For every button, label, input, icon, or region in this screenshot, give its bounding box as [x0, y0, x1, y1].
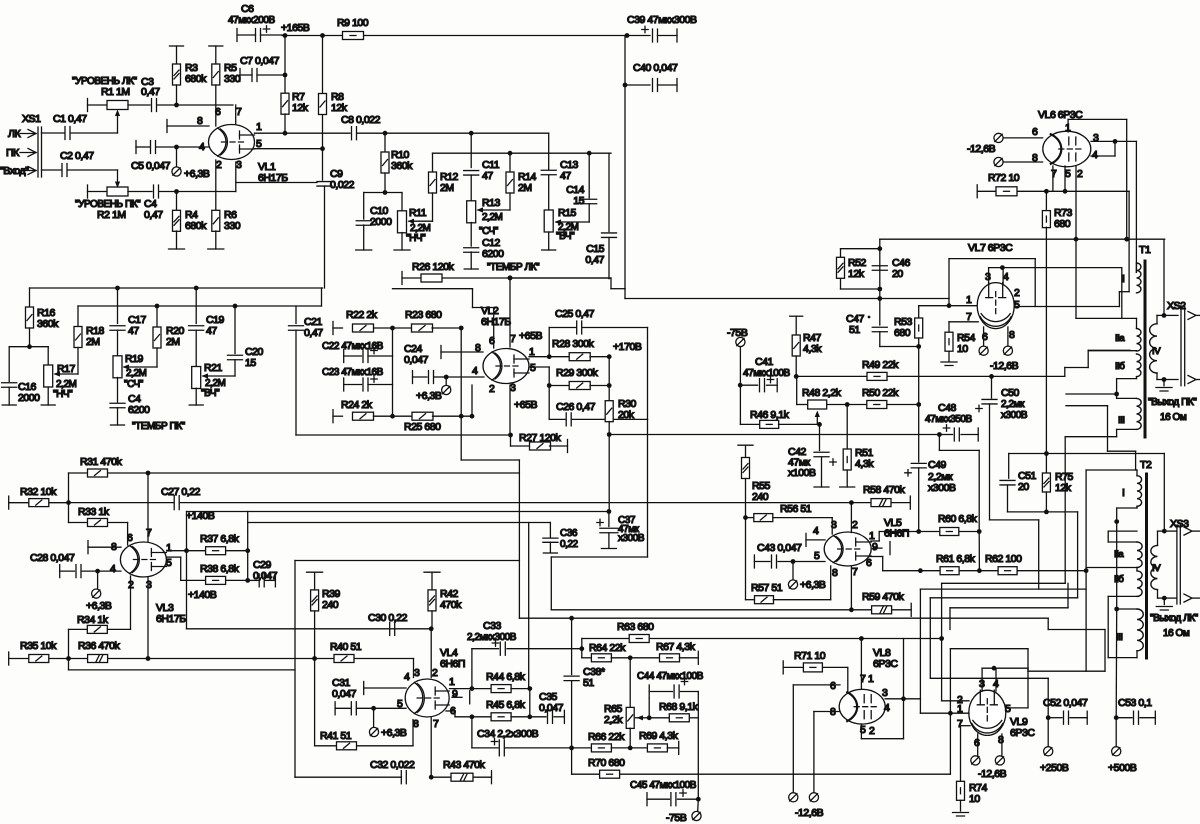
tube VL9 6Р3С [969, 690, 1006, 735]
resistor R22 [332, 322, 334, 335]
svg-text:C48: C48 [938, 402, 957, 414]
svg-text:-75В: -75В [666, 812, 687, 824]
terminal -75В top [736, 337, 745, 346]
svg-text:XS2: XS2 [1167, 300, 1186, 312]
capacitor C17 [117, 288, 119, 324]
capacitor C34 [471, 717, 473, 748]
wire T2 IIa top [1108, 530, 1137, 532]
capacitor C4a [110, 403, 125, 408]
svg-text:R13: R13 [482, 197, 501, 209]
resistor R40 [315, 658, 334, 660]
svg-text:IIб: IIб [1114, 574, 1124, 585]
wire R30 col to C37 [608, 435, 610, 512]
svg-text:-75В: -75В [727, 327, 748, 339]
node R52 bottom [877, 287, 882, 292]
svg-text:6: 6 [215, 106, 221, 118]
capacitor C15 [608, 153, 610, 231]
svg-text:2,2М: 2,2М [126, 368, 147, 379]
node C14 [587, 151, 592, 156]
wire VL4 pin6 [446, 710, 455, 712]
svg-text:4: 4 [1092, 149, 1098, 161]
svg-text:5: 5 [1005, 703, 1011, 715]
capacitor C41 [740, 384, 757, 386]
svg-text:IIа: IIа [1114, 549, 1124, 560]
capacitor C20 [234, 306, 236, 354]
svg-text:4: 4 [472, 365, 478, 377]
svg-text:2: 2 [869, 725, 875, 737]
wire VL2 pin2 [470, 414, 475, 419]
wire pin3 to C9 row [235, 162, 237, 192]
svg-text:7: 7 [146, 527, 152, 539]
wire VL1 pin1 row [255, 132, 351, 134]
svg-text:4: 4 [1003, 271, 1009, 283]
capacitor C44 [648, 685, 650, 698]
wire R60R61 col [978, 532, 980, 571]
capacitor C30 [390, 622, 395, 635]
wire VL8 pin8 [814, 711, 840, 713]
terminal +500В [1115, 718, 1117, 747]
wire IIab junction [1088, 350, 1136, 352]
tube VL2 6Н17Б [483, 349, 529, 384]
svg-text:+65В: +65В [514, 399, 537, 411]
node C41 left [738, 383, 743, 388]
resistor R43 [431, 776, 451, 778]
resistor R35 [8, 652, 10, 665]
ground XS2 [1163, 380, 1165, 386]
svg-text:C41: C41 [755, 356, 774, 368]
wire VL4 pin2 col [430, 629, 432, 678]
resistor R56 [746, 517, 754, 519]
svg-text:"ТЕМБР ЛК": "ТЕМБР ЛК" [487, 262, 540, 273]
wire T2 III bottom [1136, 651, 1138, 658]
svg-text:ЛК: ЛК [8, 128, 21, 140]
wire +140V col [186, 512, 188, 551]
svg-text:+250В: +250В [1040, 762, 1069, 774]
node C50 top [989, 374, 994, 379]
wire R70 to box [949, 713, 951, 774]
node bus298 [877, 296, 882, 301]
node R52 top [877, 246, 882, 251]
resistor R41 [315, 745, 337, 747]
terminal -75В bottom [697, 799, 700, 811]
svg-text:XS1: XS1 [22, 113, 41, 125]
capacitor C27 [174, 496, 179, 510]
resistor R73 [1045, 191, 1047, 211]
node R44 right [527, 686, 532, 691]
resistor R63 [629, 635, 649, 643]
node R60 right [977, 529, 982, 534]
node R75 top [1044, 451, 1049, 456]
svg-text:4: 4 [404, 671, 410, 683]
bus y522 [248, 522, 551, 524]
svg-text:ПК: ПК [6, 147, 20, 159]
svg-text:T2: T2 [1140, 459, 1152, 471]
svg-text:16 Ом: 16 Ом [1163, 628, 1190, 639]
capacitor C40 [624, 36, 626, 86]
node R59 left [849, 607, 854, 612]
node C32 R43 [429, 775, 434, 780]
heater +6,3В VL2 [445, 377, 447, 386]
capacitor C8 [352, 127, 357, 140]
wire C14 to R15 wiper [556, 221, 589, 223]
svg-text:C52 0,047: C52 0,047 [1043, 697, 1088, 709]
capacitor C2 [42, 169, 62, 171]
wire R72 east col [1128, 191, 1130, 291]
svg-text:R31 470k: R31 470k [80, 456, 123, 468]
svg-text:C26 0,47: C26 0,47 [556, 401, 596, 413]
wire C53 col [1115, 609, 1118, 718]
wire pin3 to T1 I [1135, 141, 1137, 272]
svg-text:"НЧ": "НЧ" [53, 389, 73, 400]
VL9 box [949, 649, 951, 714]
node R47 bottom [794, 374, 799, 379]
wire VL7 pin7 [949, 321, 978, 323]
tube VL8 6Р3С [839, 689, 885, 724]
wire R26 east [510, 277, 611, 279]
wire C38 col [571, 618, 573, 674]
wire R33 to pin6 [127, 523, 129, 546]
node R25 right [459, 414, 464, 419]
svg-text:R25 680: R25 680 [404, 421, 441, 433]
svg-text:2,2мкх300В: 2,2мкх300В [467, 632, 517, 643]
wire VL5 pin4 bar [805, 533, 807, 546]
svg-text:R43 470k: R43 470k [443, 759, 486, 771]
node rail R7 [283, 33, 288, 38]
svg-text:R11: R11 [409, 207, 427, 219]
wire R52C46 col [879, 239, 881, 325]
resistor R53 [918, 306, 920, 318]
svg-text:3: 3 [831, 519, 837, 531]
svg-text:I: I [1122, 273, 1124, 285]
heater VL9 [977, 734, 979, 756]
capacitor C53 [1114, 715, 1119, 720]
capacitor C6 [236, 29, 238, 42]
wire VL4 pin4 bar [363, 682, 365, 695]
ЛК tone rail 2 [433, 152, 612, 154]
wire pin8 grid bar [166, 120, 168, 133]
wire VL9 pin1 [920, 712, 969, 714]
svg-text:6: 6 [974, 737, 980, 749]
svg-text:R68 9,1k: R68 9,1k [659, 701, 699, 713]
node R68 left [647, 715, 652, 720]
svg-text:+500В: +500В [1108, 762, 1137, 774]
wire R63 to VL8 grid [859, 636, 864, 641]
node R23 right [459, 326, 464, 331]
resistor R57 [746, 599, 755, 601]
wire R18 to R17 wiper [55, 373, 78, 375]
capacitor C32 [401, 771, 406, 784]
node R39 bottom [312, 656, 317, 661]
node R75 bottom [1044, 510, 1049, 515]
svg-text:47мкх100В: 47мкх100В [743, 368, 790, 379]
wire VL9 pin2 [942, 700, 969, 702]
wire VL2 pin6 jog [493, 308, 495, 349]
node R53 bottom [916, 344, 921, 349]
svg-text:R26 120k: R26 120k [412, 261, 455, 273]
terminal bar ТЕМБР ЛК [401, 272, 403, 285]
heater +6,3В VL1 [176, 147, 178, 166]
wire x1116 col [1116, 522, 1118, 609]
capacitor C16 [8, 347, 10, 382]
capacitor C28 [59, 565, 61, 578]
capacitor C26 [548, 386, 550, 420]
T2 winding IIb [1137, 571, 1142, 597]
node R28 right [607, 354, 612, 359]
svg-text:+165В: +165В [281, 22, 310, 34]
capacitor C24 [412, 371, 414, 384]
svg-text:R514,3k: R514,3k [855, 447, 874, 470]
ЛК tone block bottom rail [402, 277, 611, 279]
node R20 top [155, 304, 160, 309]
resistor R26 [421, 274, 442, 282]
capacitor C5 [135, 141, 137, 154]
node R73 top [1044, 189, 1049, 194]
svg-text:+6,3В: +6,3В [800, 579, 826, 591]
wire C25 col down [647, 328, 649, 420]
svg-text:4: 4 [199, 141, 205, 153]
wire VL8 pin3 [885, 698, 903, 700]
wire VL7 pins34 top [988, 268, 990, 284]
resistor R12 [432, 153, 434, 172]
svg-text:C7 0,047: C7 0,047 [240, 55, 280, 67]
svg-text:R69 4,3k: R69 4,3k [639, 730, 679, 742]
resistor R4 [176, 192, 178, 211]
resistor R64 [582, 657, 592, 659]
svg-text:8: 8 [998, 734, 1004, 746]
wire VL3 pin2 col [130, 576, 132, 629]
ПК tone rail 2 [78, 305, 322, 307]
wire R55 col down [745, 518, 747, 600]
svg-text:R37 6,8k: R37 6,8k [200, 533, 240, 545]
ПК tone rail 1 [30, 287, 323, 289]
node C4 [174, 189, 179, 194]
svg-text:8: 8 [832, 567, 838, 579]
node R61 left [918, 568, 923, 573]
svg-text:C39 47мкх300В: C39 47мкх300В [627, 14, 697, 26]
wire R23R25 jog [461, 459, 519, 461]
wire VL8 pin6 [793, 684, 840, 686]
wire T2 IIab junction [1086, 567, 1137, 569]
svg-text:2: 2 [1077, 168, 1083, 180]
T2 winding IIa [1137, 542, 1142, 568]
resistor R50 [847, 404, 866, 406]
wire pin5 signal down [186, 551, 188, 629]
resistor R62 [979, 570, 998, 572]
capacitor C37 [608, 512, 610, 527]
wire VL9 pins34 [981, 668, 983, 691]
svg-text:C25 0,47: C25 0,47 [555, 308, 595, 320]
capacitor C38 [564, 676, 579, 681]
wire x295 col [294, 561, 296, 778]
T2 winding III [1137, 609, 1143, 651]
wire VL2 pin5 [529, 366, 549, 368]
svg-text:47мкх350В: 47мкх350В [925, 414, 972, 425]
wire T2 I bottom [1136, 506, 1138, 508]
wire VL6 pin3 [1091, 140, 1136, 142]
svg-text:8: 8 [197, 115, 203, 127]
T1 winding IIb [1137, 354, 1142, 377]
wire pin3 east [904, 698, 921, 700]
wire R53 col down [918, 347, 920, 405]
svg-text:R64 22k: R64 22k [589, 642, 626, 654]
svg-text:C40 0,047: C40 0,047 [633, 62, 678, 74]
node C20 top [233, 304, 238, 309]
ground XS3 [1163, 598, 1165, 604]
svg-text:-12,6В: -12,6В [978, 768, 1007, 780]
wire C32 bus left [295, 776, 402, 778]
resistor R71 [782, 661, 784, 674]
capacitor C11 [470, 133, 472, 167]
svg-text:16 Ом: 16 Ом [1160, 412, 1187, 423]
svg-text:R59 470k: R59 470k [862, 591, 905, 603]
wire VL2 pin1 row [529, 356, 549, 358]
capacitor C39 [625, 33, 630, 38]
svg-text:C32 0,022: C32 0,022 [370, 759, 415, 771]
resistor R44 [472, 688, 492, 690]
capacitor C9 [322, 149, 324, 180]
resistor R3 [170, 45, 184, 47]
capacitor C42 [819, 424, 821, 450]
svg-text:1: 1 [166, 542, 172, 554]
wire R63 row [582, 638, 942, 640]
wire C44 col [697, 692, 699, 718]
resistor R39 [307, 571, 323, 573]
node R58 left [849, 500, 854, 505]
resistor R37 [187, 550, 206, 552]
capacitor C13 [541, 170, 556, 175]
svg-text:+6,3В: +6,3В [381, 727, 407, 739]
node R36 right [146, 656, 151, 661]
resistor R5 [209, 45, 223, 47]
svg-text:C150,47: C150,47 [585, 243, 604, 266]
capacitor C52 [1046, 715, 1051, 720]
corner to C13 col [548, 133, 550, 169]
svg-text:+65В: +65В [519, 330, 542, 342]
svg-text:IIа: IIа [1115, 333, 1125, 344]
node C3-R3 [174, 103, 179, 108]
resistor R23 [393, 327, 413, 329]
wire y618 east step [1028, 670, 1105, 672]
svg-text:C2 0,47: C2 0,47 [60, 150, 94, 162]
wire R2 wiper [117, 170, 119, 181]
svg-text:3: 3 [1093, 132, 1099, 144]
node R14 top [508, 151, 513, 156]
wire VL4 pin9 bar [452, 696, 462, 698]
svg-text:7: 7 [433, 718, 439, 730]
resistor R51 [846, 405, 848, 450]
svg-text:7: 7 [236, 106, 242, 118]
svg-text:6: 6 [982, 331, 988, 343]
connector XS1 [37, 127, 39, 177]
capacitor C31 [334, 702, 336, 715]
resistor R25 [393, 415, 413, 417]
wire VL7 pin1 [919, 305, 979, 307]
svg-text:C210,47: C210,47 [304, 316, 323, 339]
capacitor C36 [549, 523, 551, 538]
wire y522 col down [528, 523, 530, 689]
svg-text:8: 8 [413, 718, 419, 730]
svg-text:R60 6,8k: R60 6,8k [938, 513, 978, 525]
wire R44R45 col [529, 689, 531, 717]
svg-text:R9 100: R9 100 [337, 17, 369, 29]
wire C49 col [918, 405, 920, 462]
resistor R67 [630, 657, 660, 659]
heater VL6 [1003, 137, 1043, 139]
svg-text:C49: C49 [928, 459, 947, 471]
wire R49 jog to T1 [1064, 368, 1066, 377]
svg-text:R46 9,1k: R46 9,1k [750, 409, 790, 421]
svg-text:9: 9 [872, 541, 878, 553]
wire VL6 pin4 [1091, 155, 1115, 157]
wire R63 left col [581, 639, 583, 658]
T2 winding IV [1151, 545, 1158, 589]
svg-text:"НЧ": "НЧ" [406, 233, 426, 244]
resistor R61 [920, 570, 939, 572]
potentiometer R21 [192, 367, 201, 389]
wire VL9 pin7 [961, 725, 971, 727]
svg-text:R73680: R73680 [1054, 207, 1073, 230]
resistor R28 [549, 356, 569, 358]
heater +6,3В VL4 [373, 708, 375, 727]
wire T2 I top [1086, 469, 1137, 471]
input arrow ПК [28, 149, 36, 157]
bus R31 feedback [148, 472, 519, 474]
wire y405 T2 link [1066, 405, 1108, 407]
svg-text:R35 10k: R35 10k [20, 640, 57, 652]
node VL2 plate wire [469, 131, 474, 136]
svg-text:C8 0,022: C8 0,022 [341, 114, 381, 126]
node R38 right [245, 578, 250, 583]
resistor R46 [740, 423, 759, 425]
svg-text:3: 3 [414, 667, 420, 679]
svg-text:47мкх200В: 47мкх200В [228, 15, 275, 26]
svg-text:"Выход ПК": "Выход ПК" [1148, 397, 1197, 408]
svg-text:R29 300k: R29 300k [556, 367, 599, 379]
capacitor C14 [588, 153, 590, 198]
svg-text:+140В: +140В [188, 589, 217, 601]
node R35 R36 [66, 656, 71, 661]
resistor R7 [284, 36, 286, 94]
node rail R8 [320, 33, 325, 38]
wire VL6 pin1 [1067, 119, 1069, 132]
svg-text:1: 1 [966, 294, 972, 306]
svg-text:R652,2k: R652,2k [604, 703, 623, 726]
node R46 C42 [817, 422, 822, 427]
wire VL9 grid chain [942, 582, 1066, 584]
node R29 left [547, 383, 552, 388]
svg-text:R56 51: R56 51 [780, 503, 812, 515]
svg-text:C27 0,22: C27 0,22 [161, 486, 201, 498]
node C17 top [115, 286, 120, 291]
wire +170V row [609, 434, 939, 436]
svg-text:2: 2 [852, 519, 858, 531]
node R26 VL2 pin7 [508, 276, 513, 281]
capacitor C10 [363, 193, 365, 220]
resistor R47 [790, 315, 803, 317]
wire T2 III top [1117, 608, 1137, 610]
resistor R75 [1045, 454, 1047, 474]
svg-text:R71 10: R71 10 [794, 650, 826, 662]
node C45 R68col [696, 797, 701, 802]
node R29 right [607, 383, 612, 388]
resistor R20 [156, 306, 158, 328]
node R8 bottom [320, 146, 325, 151]
svg-text:5: 5 [530, 362, 536, 374]
svg-text:6: 6 [866, 557, 872, 569]
input arrow ЛК [28, 130, 36, 138]
svg-text:C5 0,047: C5 0,047 [131, 160, 171, 172]
svg-text:2,2мк: 2,2мк [1001, 399, 1025, 410]
